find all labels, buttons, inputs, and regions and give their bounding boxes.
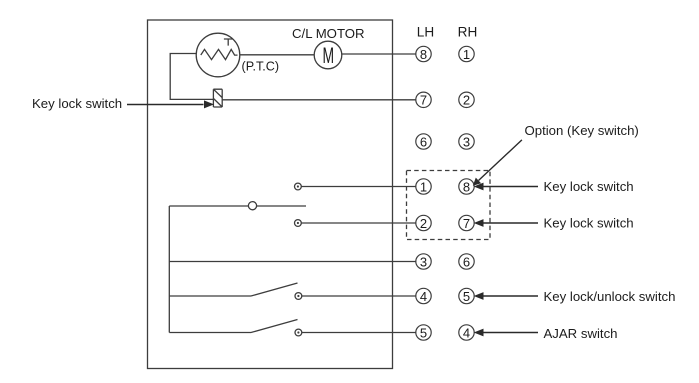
contact dot row4	[297, 295, 299, 297]
svg-text:7: 7	[463, 216, 470, 231]
switch pole wire with pivot	[169, 205, 248, 207]
svg-text:RH: RH	[458, 25, 478, 40]
pin RH8	[459, 179, 474, 194]
svg-text:LH: LH	[417, 25, 434, 40]
svg-text:1: 1	[420, 179, 427, 194]
svg-text:6: 6	[420, 134, 427, 149]
wire motor to pin LH8	[342, 53, 416, 55]
contact dot row1	[297, 185, 299, 187]
contact pin row5	[295, 329, 302, 336]
wire PTC to motor	[240, 54, 314, 56]
svg-text:5: 5	[463, 289, 470, 304]
pin LH7	[416, 92, 431, 107]
svg-text:8: 8	[463, 179, 470, 194]
svg-text:Option (Key switch): Option (Key switch)	[525, 123, 639, 138]
pin RH5	[459, 288, 474, 303]
svg-text:C/L MOTOR: C/L MOTOR	[292, 26, 365, 41]
thermistor PTC circle	[196, 33, 240, 77]
thermistor zigzag element	[201, 49, 238, 59]
pin LH6	[416, 134, 431, 149]
arrow row5	[474, 329, 538, 337]
svg-text:8: 8	[420, 47, 427, 62]
pin RH6	[459, 254, 474, 269]
pin RH4	[459, 325, 474, 340]
svg-text:Key lock/unlock switch: Key lock/unlock switch	[544, 289, 676, 304]
pivot circle	[248, 202, 256, 210]
contact pin row4	[295, 293, 302, 300]
wire contact row4 to pin LH4	[302, 295, 416, 297]
svg-text:M: M	[323, 43, 335, 68]
arrow option to pin RH8	[473, 140, 522, 186]
wire key cylinder to pin LH7	[223, 99, 417, 101]
dashed option box	[407, 171, 491, 240]
enclosure box (door lock actuator)	[148, 20, 393, 369]
pin LH4	[416, 288, 431, 303]
pin RH1	[459, 46, 474, 61]
switch row5 arm	[251, 320, 298, 333]
arrow left label to key cylinder	[127, 100, 214, 108]
svg-text:(P.T.C): (P.T.C)	[242, 60, 280, 74]
switch row4 arm	[251, 283, 298, 296]
key cylinder symbol (double-triangle)	[213, 89, 222, 107]
contact pin row2	[295, 220, 302, 227]
elbow wire PTC left to key cylinder	[170, 54, 213, 100]
arrow row4	[474, 292, 538, 300]
pin LH1	[416, 179, 431, 194]
svg-text:1: 1	[463, 47, 470, 62]
arrow row2	[474, 219, 538, 227]
svg-text:6: 6	[463, 254, 470, 269]
pin numbers	[420, 47, 470, 341]
svg-text:Key lock switch: Key lock switch	[544, 179, 634, 194]
pin LH8	[416, 46, 431, 61]
contact dot row2	[297, 222, 299, 224]
svg-text:Key lock switch: Key lock switch	[544, 216, 634, 231]
arrow row1	[474, 183, 538, 191]
svg-text:2: 2	[420, 216, 427, 231]
wire row3 bus to pin LH3	[169, 261, 416, 263]
svg-text:3: 3	[463, 134, 470, 149]
svg-text:7: 7	[420, 93, 427, 108]
contact pin row1	[295, 183, 302, 190]
svg-text:4: 4	[420, 289, 427, 304]
svg-text:Key lock switch: Key lock switch	[32, 96, 122, 111]
pin LH5	[416, 325, 431, 340]
svg-text:2: 2	[463, 93, 470, 108]
wire contact row5 to pin LH5	[302, 332, 416, 334]
svg-text:3: 3	[420, 254, 427, 269]
svg-text:4: 4	[463, 325, 470, 340]
pin RH2	[459, 92, 474, 107]
pin LH2	[416, 215, 431, 230]
left switch bus vertical wire	[168, 206, 170, 333]
motor M1 circle	[314, 41, 342, 69]
svg-text:5: 5	[420, 325, 427, 340]
pin RH7	[459, 215, 474, 230]
switch row5 wire	[169, 332, 251, 334]
contact dot row5	[297, 331, 299, 333]
wire contact row2 to pin LH2	[301, 222, 416, 224]
pin RH3	[459, 134, 474, 149]
T mark on thermistor	[224, 39, 233, 46]
pin circles	[416, 46, 474, 340]
switch row4 wire	[169, 295, 251, 297]
wire contact row1 to pin LH1	[301, 186, 416, 188]
pin LH3	[416, 254, 431, 269]
svg-text:AJAR switch: AJAR switch	[544, 326, 618, 341]
